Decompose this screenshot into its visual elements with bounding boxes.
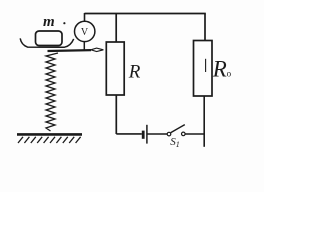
switch S1 left contact: [167, 132, 171, 136]
voltmeter U1: [75, 21, 95, 41]
spring: [46, 53, 58, 131]
svg-text:o: o: [227, 69, 232, 79]
ground line: [17, 133, 82, 136]
switch S1 right contact: [182, 132, 186, 136]
wire R bottom down: [115, 95, 117, 134]
svg-text:R: R: [128, 62, 141, 83]
ground hatching: [18, 137, 81, 143]
wire battery to switch: [147, 133, 167, 135]
battery BT1 positive plate: [146, 125, 148, 144]
svg-text:V: V: [81, 27, 89, 38]
stray tick inside R0: [205, 59, 207, 72]
dot after m: [63, 22, 65, 24]
pan dish under mass: [20, 38, 73, 47]
wiper arm wire: [48, 49, 92, 52]
wire top right corner down to R0: [204, 14, 206, 41]
switch S1 lever: [171, 125, 185, 133]
resistor R: [106, 42, 124, 95]
svg-text:m: m: [43, 14, 55, 30]
wire R0 bottom stub: [203, 96, 205, 147]
mass m block: [36, 31, 63, 46]
wire voltmeter bottom stub to wiper: [83, 42, 85, 51]
wiper arrowhead into R: [91, 48, 104, 51]
wire top horizontal bus: [85, 13, 206, 15]
wire top branch down to R: [115, 14, 117, 43]
wire voltmeter top stub: [84, 13, 86, 22]
battery BT1 negative plate: [142, 131, 145, 139]
wire bottom left segment: [116, 133, 142, 135]
wire switch to right junction: [185, 133, 205, 135]
svg-text:R: R: [212, 56, 227, 81]
resistor R0: [194, 41, 213, 97]
